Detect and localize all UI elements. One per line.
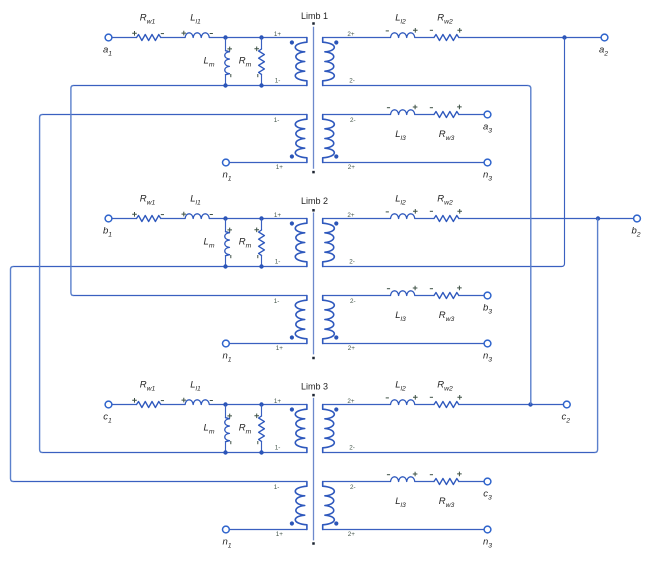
svg-text:2-: 2- bbox=[349, 258, 355, 265]
svg-text:2-: 2- bbox=[349, 77, 355, 84]
svg-text:1-: 1- bbox=[275, 444, 281, 451]
svg-text:1+: 1+ bbox=[276, 164, 284, 171]
svg-text:1-: 1- bbox=[274, 117, 280, 124]
svg-text:Limb 3: Limb 3 bbox=[301, 382, 328, 392]
svg-text:Limb 1: Limb 1 bbox=[301, 11, 328, 21]
svg-text:1+: 1+ bbox=[274, 212, 282, 219]
svg-text:Limb 2: Limb 2 bbox=[301, 196, 328, 206]
svg-text:1+: 1+ bbox=[276, 345, 284, 352]
svg-text:1-: 1- bbox=[274, 298, 280, 305]
svg-text:1+: 1+ bbox=[274, 31, 282, 38]
svg-text:2+: 2+ bbox=[348, 164, 356, 171]
svg-text:1+: 1+ bbox=[274, 398, 282, 405]
svg-text:2+: 2+ bbox=[348, 345, 356, 352]
svg-text:2-: 2- bbox=[350, 484, 356, 491]
svg-text:2-: 2- bbox=[350, 117, 356, 124]
svg-text:1-: 1- bbox=[275, 258, 281, 265]
svg-text:1-: 1- bbox=[275, 77, 281, 84]
svg-text:2-: 2- bbox=[349, 444, 355, 451]
svg-text:1+: 1+ bbox=[276, 531, 284, 538]
svg-text:1-: 1- bbox=[274, 484, 280, 491]
svg-text:2+: 2+ bbox=[348, 531, 356, 538]
svg-text:2-: 2- bbox=[350, 298, 356, 305]
